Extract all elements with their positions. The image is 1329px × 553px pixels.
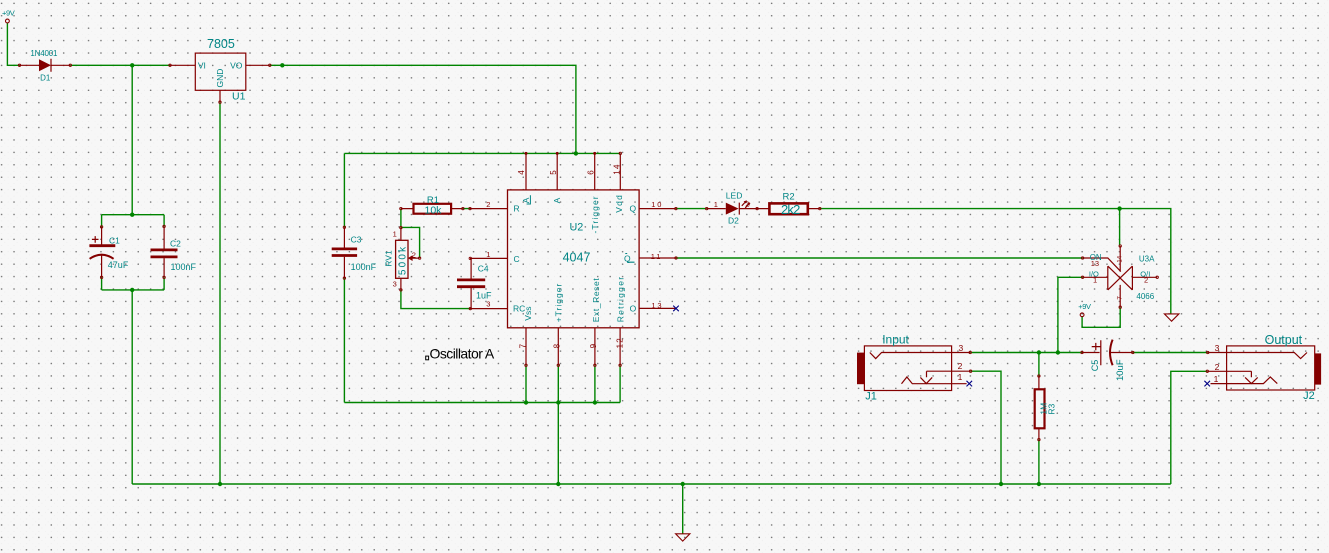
svg-text:+Trigger: +Trigger bbox=[554, 283, 564, 323]
svg-text:R3: R3 bbox=[1046, 403, 1056, 414]
svg-text:Q: Q bbox=[630, 204, 637, 214]
svg-text:8: 8 bbox=[552, 343, 561, 348]
svg-text:A: A bbox=[552, 197, 562, 203]
svg-text:4047: 4047 bbox=[563, 251, 591, 265]
svg-text:2: 2 bbox=[486, 200, 490, 209]
svg-text:U1: U1 bbox=[232, 90, 246, 102]
svg-text:Output: Output bbox=[1265, 333, 1303, 347]
svg-text:1: 1 bbox=[486, 250, 490, 259]
svg-text:14: 14 bbox=[1117, 255, 1123, 262]
svg-text:Ext_Reset: Ext_Reset bbox=[591, 278, 601, 323]
svg-text:4: 4 bbox=[517, 170, 526, 175]
svg-text:J1: J1 bbox=[865, 391, 877, 403]
svg-text:2: 2 bbox=[412, 251, 416, 260]
svg-text:D1: D1 bbox=[40, 74, 51, 83]
svg-text:U2: U2 bbox=[570, 221, 584, 233]
svg-text:C4: C4 bbox=[478, 264, 489, 274]
svg-text:Input: Input bbox=[882, 333, 909, 347]
svg-text:2k2: 2k2 bbox=[781, 202, 800, 217]
svg-text:O: O bbox=[630, 303, 637, 313]
svg-text:R2: R2 bbox=[783, 192, 795, 203]
svg-text:13: 13 bbox=[1091, 259, 1099, 268]
svg-text:7805: 7805 bbox=[207, 37, 235, 51]
svg-text:Vss: Vss bbox=[523, 307, 533, 321]
svg-text:1: 1 bbox=[1214, 374, 1219, 384]
svg-text:C1: C1 bbox=[109, 236, 120, 246]
svg-text:1: 1 bbox=[393, 229, 397, 238]
svg-text:VI: VI bbox=[198, 60, 206, 70]
svg-text:5: 5 bbox=[549, 170, 558, 175]
svg-text:11: 11 bbox=[651, 252, 662, 261]
svg-text:3: 3 bbox=[393, 280, 397, 289]
svg-text:C2: C2 bbox=[170, 239, 181, 249]
svg-text:1: 1 bbox=[714, 200, 718, 209]
svg-text:47uF: 47uF bbox=[108, 260, 129, 270]
svg-text:3: 3 bbox=[1215, 343, 1220, 353]
svg-text:100nF: 100nF bbox=[351, 262, 377, 272]
svg-text:1: 1 bbox=[1093, 276, 1097, 285]
svg-text:GND: GND bbox=[215, 69, 225, 88]
svg-text:10k: 10k bbox=[425, 204, 443, 216]
svg-text:1N4001: 1N4001 bbox=[30, 49, 58, 58]
svg-text:LED: LED bbox=[726, 190, 743, 200]
svg-text:14: 14 bbox=[612, 163, 621, 174]
svg-text:500k: 500k bbox=[398, 245, 409, 276]
svg-text:1: 1 bbox=[958, 372, 963, 382]
svg-text:R: R bbox=[514, 204, 520, 214]
svg-text:9: 9 bbox=[589, 343, 598, 348]
svg-text:C5: C5 bbox=[1090, 360, 1100, 372]
svg-text:J2: J2 bbox=[1303, 390, 1315, 402]
svg-text:100nF: 100nF bbox=[171, 262, 197, 272]
svg-text:3: 3 bbox=[959, 343, 964, 353]
svg-text:C3: C3 bbox=[351, 235, 362, 245]
svg-text:+9V: +9V bbox=[1078, 302, 1091, 311]
svg-text:2: 2 bbox=[1215, 362, 1220, 372]
svg-text:2: 2 bbox=[958, 361, 963, 371]
svg-text:10: 10 bbox=[651, 200, 663, 209]
svg-text:-Trigger: -Trigger bbox=[590, 195, 600, 233]
svg-text:+9V: +9V bbox=[2, 9, 15, 18]
svg-text:7: 7 bbox=[519, 343, 528, 348]
svg-text:6: 6 bbox=[587, 170, 596, 175]
svg-text:U3A: U3A bbox=[1139, 254, 1155, 263]
svg-text:7: 7 bbox=[1116, 296, 1123, 300]
svg-text:A: A bbox=[521, 197, 531, 203]
svg-text:2: 2 bbox=[745, 200, 749, 209]
svg-text:VO: VO bbox=[230, 60, 243, 70]
svg-text:Retrigger: Retrigger bbox=[616, 276, 626, 323]
svg-text:C: C bbox=[514, 254, 520, 264]
svg-text:12: 12 bbox=[615, 337, 624, 348]
svg-text:Vdd: Vdd bbox=[614, 194, 624, 213]
svg-text:13: 13 bbox=[651, 301, 663, 310]
svg-text:RV1: RV1 bbox=[383, 250, 393, 267]
svg-text:Oscillator A: Oscillator A bbox=[430, 346, 495, 362]
svg-text:D2: D2 bbox=[728, 215, 739, 225]
svg-text:3: 3 bbox=[486, 300, 490, 309]
svg-text:10uF: 10uF bbox=[1115, 359, 1126, 381]
svg-text:4066: 4066 bbox=[1136, 292, 1154, 301]
svg-text:2: 2 bbox=[1144, 276, 1148, 285]
